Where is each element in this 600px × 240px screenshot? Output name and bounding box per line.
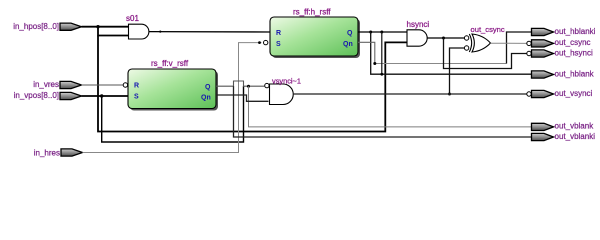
wire in_hres to h_rsff S bubble: [83, 43, 262, 153]
port label S h_rsff: [276, 41, 281, 48]
svg-text:out_vsynci: out_vsynci: [555, 89, 593, 98]
inversion bubble v_rsff R input: [123, 83, 127, 87]
wire h_rsff Q branch to out_hblank: [371, 32, 532, 74]
junction in_hpos bus: [96, 25, 99, 28]
junction before h_rsff S bubble: [258, 41, 261, 44]
svg-text:out_csync: out_csync: [555, 38, 591, 47]
wire in_hpos bus branch to s01 lower input: [98, 27, 129, 36]
label vsynci~1: [272, 77, 301, 86]
output pin out_hsynci: [532, 48, 593, 57]
svg-text:Qn: Qn: [343, 41, 353, 48]
svg-text:R: R: [134, 83, 139, 90]
svg-text:Q: Q: [347, 30, 353, 37]
svg-text:R: R: [276, 30, 281, 37]
input pin in_hpos[8..0]: [13, 22, 81, 31]
wire in_vpos bus to v_rsff S: [82, 95, 129, 97]
xor gate out_csync: [469, 34, 490, 52]
output pin out_csync: [532, 38, 591, 47]
wire in_hpos bus to s01: [82, 26, 129, 28]
label s01: [126, 14, 139, 23]
wire hblanki riser to out_hblanki: [507, 32, 532, 64]
wire h_rsff Q output: [358, 31, 407, 33]
wire xor output to out_csync: [491, 42, 527, 44]
svg-text:out_csync: out_csync: [471, 25, 505, 34]
wire s01 output to h_rsff R: [149, 31, 270, 33]
wire hsynci to out_hsynci: [444, 38, 527, 69]
wire hsynci output to xor top bubble: [427, 37, 464, 39]
label hsynci: [407, 20, 430, 29]
input pin in_hres: [34, 148, 83, 157]
wire h_rsff Qn output: [358, 42, 375, 63]
wire vsynci output to out_vsynci: [293, 93, 527, 95]
junction h_rsff Q at 380.5: [380, 31, 383, 34]
inversion bubble out_vsynci: [527, 92, 531, 96]
input pin in_vres: [33, 80, 81, 89]
wire in_hpos bus rail to hsynci lower input: [98, 36, 407, 132]
svg-text:out_hblanki: out_hblanki: [555, 27, 596, 36]
svg-text:rs_ff:h_rsff: rs_ff:h_rsff: [293, 7, 331, 16]
port label Q v_rsff: [205, 84, 211, 91]
port label Qn v_rsff: [201, 95, 211, 102]
svg-text:in_hres: in_hres: [34, 148, 60, 157]
svg-text:rs_ff:v_rsff: rs_ff:v_rsff: [151, 59, 189, 68]
junction on vsynci output wire: [448, 93, 451, 96]
svg-text:S: S: [276, 41, 281, 48]
output pin out_vblanki: [532, 132, 596, 141]
junction hsynci output: [380, 37, 445, 76]
inversion bubble xor top input: [464, 36, 468, 40]
output pin out_hblank: [532, 69, 595, 78]
inversion bubble out_csync: [527, 41, 531, 45]
svg-text:in_vres: in_vres: [33, 80, 59, 89]
port label Q h_rsff: [347, 30, 353, 37]
input pin in_vpos[8..0]: [14, 91, 82, 100]
svg-text:in_vpos[8..0]: in_vpos[8..0]: [14, 91, 59, 100]
flip-flop v_rsff: [128, 69, 218, 111]
wire in_vpos bus rail to vsynci lower input: [102, 86, 244, 142]
and gate vsynci~1: [270, 84, 294, 105]
wire v_rsff Qn to out_vblanki: [216, 95, 269, 101]
wire h_rsff Q second branch: [381, 32, 383, 74]
wire in_vres to v_rsff R bubble: [82, 84, 124, 86]
inversion bubble out_hsynci: [527, 51, 531, 55]
junction h_rsff Q at 370.7: [369, 31, 372, 34]
svg-text:Qn: Qn: [201, 95, 211, 102]
port label R v_rsff: [134, 83, 139, 90]
wire v_rsff Q output with hop: [216, 81, 532, 137]
label rs_ff:v_rsff: [151, 59, 189, 68]
svg-text:in_hpos[8..0]: in_hpos[8..0]: [13, 22, 59, 31]
junction in_vpos bus: [100, 94, 103, 97]
and gate hsynci: [407, 30, 427, 46]
output pin out_vblank: [532, 122, 595, 131]
port label Qn h_rsff: [343, 41, 353, 48]
junction on hblanki rail: [373, 62, 376, 65]
svg-text:hsynci: hsynci: [407, 20, 430, 29]
svg-text:out_vblanki: out_vblanki: [555, 132, 596, 141]
flip-flop h_rsff: [270, 17, 360, 58]
label rs_ff:h_rsff: [293, 7, 331, 16]
output pin out_vsynci: [532, 89, 593, 98]
svg-text:Q: Q: [205, 84, 211, 91]
wire v_rsff Q to out_vblank: [249, 86, 532, 127]
and gate s01: [129, 24, 149, 39]
svg-text:s01: s01: [126, 14, 139, 23]
junction v_rsff Q branch: [247, 85, 250, 88]
inversion bubble h_rsff S input: [264, 40, 268, 44]
svg-text:out_hblank: out_hblank: [555, 69, 595, 78]
label out_csync: [471, 25, 505, 34]
svg-text:vsynci~1: vsynci~1: [272, 77, 301, 86]
output pin out_hblanki: [532, 27, 596, 36]
svg-text:S: S: [134, 94, 139, 101]
port label R h_rsff: [276, 30, 281, 37]
svg-text:out_hsynci: out_hsynci: [555, 48, 593, 57]
wire vsynci riser to xor bottom input: [450, 48, 465, 94]
svg-text:out_vblank: out_vblank: [555, 122, 595, 131]
wire hblanki gray rail: [375, 63, 507, 65]
port label S v_rsff: [134, 94, 139, 101]
inversion bubble vsynci top input: [265, 83, 269, 87]
inversion bubble xor bottom input: [464, 46, 468, 50]
